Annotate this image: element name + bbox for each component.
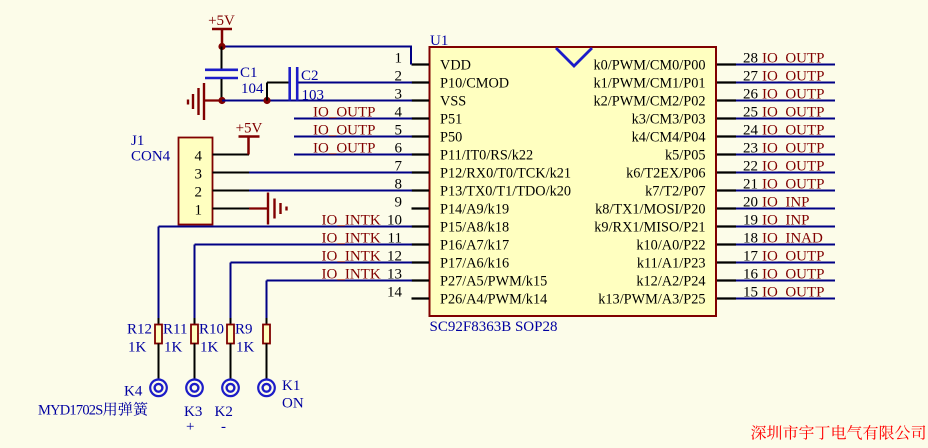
svg-text:IO_INTK: IO_INTK (322, 249, 381, 265)
svg-text:k9/RX1/MISO/P21: k9/RX1/MISO/P21 (594, 220, 705, 236)
svg-text:P10/CMOD: P10/CMOD (440, 76, 509, 92)
svg-text:K3: K3 (184, 404, 202, 420)
svg-text:k8/TX1/MOSI/P20: k8/TX1/MOSI/P20 (595, 202, 705, 218)
svg-text:P26/A4/PWM/k14: P26/A4/PWM/k14 (440, 292, 547, 308)
svg-text:P16/A7/k17: P16/A7/k17 (440, 238, 509, 254)
svg-text:k13/PWM/A3/P25: k13/PWM/A3/P25 (598, 292, 705, 308)
svg-text:P27/A5/PWM/k15: P27/A5/PWM/k15 (440, 274, 547, 290)
svg-text:1K: 1K (236, 340, 255, 356)
svg-text:+: + (186, 419, 194, 435)
svg-text:P13/TX0/T1/TDO/k20: P13/TX0/T1/TDO/k20 (440, 184, 571, 200)
svg-text:K1: K1 (282, 378, 300, 394)
svg-text:1: 1 (395, 51, 403, 67)
svg-text:P14/A9/k19: P14/A9/k19 (440, 202, 509, 218)
svg-text:VSS: VSS (440, 94, 466, 110)
svg-text:-: - (221, 419, 226, 435)
svg-text:IO_OUTP: IO_OUTP (313, 123, 376, 139)
svg-text:MYD1702S: MYD1702S (38, 403, 103, 419)
svg-text:R9: R9 (235, 322, 253, 338)
svg-text:R12: R12 (127, 322, 152, 338)
svg-text:k6/T2EX/P06: k6/T2EX/P06 (626, 166, 705, 182)
svg-text:k4/CM4/P04: k4/CM4/P04 (632, 130, 706, 146)
svg-text:IO_OUTP: IO_OUTP (313, 105, 376, 121)
svg-text:14: 14 (387, 285, 403, 301)
svg-text:K4: K4 (124, 384, 143, 400)
svg-text:CON4: CON4 (131, 149, 171, 165)
svg-text:1K: 1K (128, 340, 147, 356)
svg-text:k2/PWM/CM2/P02: k2/PWM/CM2/P02 (593, 94, 705, 110)
svg-text:k11/A1/P23: k11/A1/P23 (637, 256, 706, 272)
svg-text:k0/PWM/CM0/P00: k0/PWM/CM0/P00 (593, 58, 705, 74)
svg-text:R11: R11 (163, 322, 187, 338)
svg-text:VDD: VDD (440, 58, 471, 74)
svg-text:103: 103 (302, 88, 325, 104)
svg-text:U1: U1 (430, 33, 448, 49)
svg-text:+5V: +5V (208, 13, 235, 29)
svg-text:P51: P51 (440, 112, 462, 128)
svg-text:R10: R10 (199, 322, 224, 338)
svg-text:k1/PWM/CM1/P01: k1/PWM/CM1/P01 (593, 76, 705, 92)
svg-text:IO_INTK: IO_INTK (322, 267, 381, 283)
svg-text:SC92F8363B SOP28: SC92F8363B SOP28 (430, 319, 558, 335)
svg-text:k12/A2/P24: k12/A2/P24 (636, 274, 705, 290)
svg-text:IO_OUTP: IO_OUTP (313, 141, 376, 157)
svg-text:4: 4 (195, 149, 203, 165)
svg-text:1: 1 (195, 203, 203, 219)
svg-text:+5V: +5V (236, 121, 263, 137)
svg-text:P11/IT0/RS/k22: P11/IT0/RS/k22 (440, 148, 533, 164)
svg-text:P17/A6/k16: P17/A6/k16 (440, 256, 509, 272)
svg-text:2: 2 (195, 185, 203, 201)
svg-text:P50: P50 (440, 130, 462, 146)
svg-text:1K: 1K (200, 340, 219, 356)
svg-text:P15/A8/k18: P15/A8/k18 (440, 220, 509, 236)
svg-text:1K: 1K (164, 340, 183, 356)
svg-text:k3/CM3/P03: k3/CM3/P03 (632, 112, 706, 128)
svg-text:k5/P05: k5/P05 (665, 148, 706, 164)
svg-text:IO_INTK: IO_INTK (322, 213, 381, 229)
svg-text:3: 3 (195, 167, 203, 183)
svg-text:J1: J1 (131, 133, 144, 149)
svg-text:104: 104 (241, 81, 264, 97)
svg-text:IO_INTK: IO_INTK (322, 231, 381, 247)
svg-text:P12/RX0/T0/TCK/k21: P12/RX0/T0/TCK/k21 (440, 166, 571, 182)
svg-text:k10/A0/P22: k10/A0/P22 (636, 238, 705, 254)
svg-text:k7/T2/P07: k7/T2/P07 (645, 184, 705, 200)
svg-text:C1: C1 (240, 65, 258, 81)
svg-text:9: 9 (395, 195, 403, 211)
svg-text:ON: ON (282, 396, 304, 412)
svg-text:K2: K2 (215, 404, 233, 420)
